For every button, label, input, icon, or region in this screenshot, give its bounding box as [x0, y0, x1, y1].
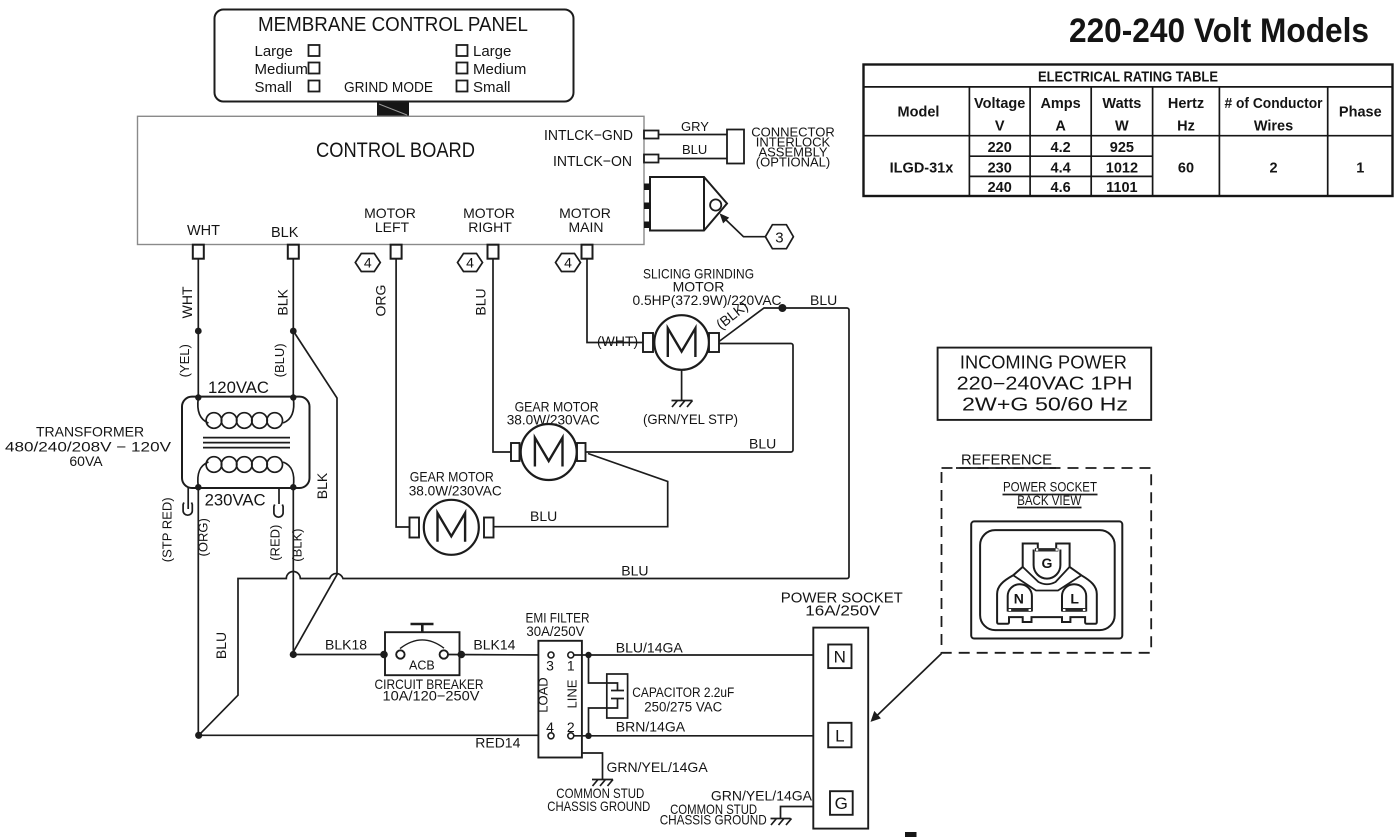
svg-text:(BLU): (BLU)	[272, 343, 287, 377]
svg-text:38.0W/230VAC: 38.0W/230VAC	[409, 483, 502, 499]
connector assembly body	[650, 177, 727, 231]
wire BLK18	[293, 654, 396, 656]
node transformer bottom-left	[195, 484, 201, 490]
svg-text:4: 4	[546, 719, 554, 735]
terminal M3 left	[410, 518, 420, 538]
svg-text:BLK: BLK	[271, 225, 299, 241]
svg-text:CAPACITOR 2.2uF: CAPACITOR 2.2uF	[632, 685, 734, 700]
node capacitor top	[585, 652, 591, 658]
svg-text:Wires: Wires	[1254, 119, 1293, 135]
svg-text:N: N	[1014, 591, 1024, 607]
svg-text:1: 1	[567, 658, 575, 674]
wire BLK down	[292, 259, 294, 398]
svg-text:Watts: Watts	[1102, 96, 1141, 112]
node BLU top junction	[778, 304, 786, 312]
breaker arc	[400, 640, 444, 649]
svg-text:BACK VIEW: BACK VIEW	[1017, 492, 1082, 508]
terminal M2 right	[577, 443, 586, 461]
svg-text:L: L	[1070, 591, 1079, 607]
reference arrow to socket	[874, 654, 942, 719]
checkbox large left	[309, 45, 320, 56]
connector pin 1 (black)	[644, 184, 651, 191]
svg-text:BLU: BLU	[810, 292, 837, 308]
wire GRY	[659, 134, 728, 136]
incoming power box	[938, 348, 1152, 420]
svg-text:BLU: BLU	[213, 632, 229, 659]
svg-text:Voltage: Voltage	[974, 96, 1025, 112]
crown inner chevron lower	[1013, 575, 1081, 590]
wire MOTOR MAIN to motor	[587, 259, 643, 343]
wire BLK14	[448, 654, 548, 657]
svg-text:L: L	[835, 727, 844, 746]
wire BLU interlock	[659, 158, 728, 160]
checkbox small left	[309, 81, 320, 92]
terminal INTLCK-GND	[644, 131, 659, 139]
svg-text:10A/120−250V: 10A/120−250V	[383, 688, 481, 704]
svg-text:Model: Model	[898, 105, 940, 121]
node transformer bottom-right	[290, 484, 296, 490]
terminal MOTOR MAIN	[582, 245, 593, 259]
wire BLU long horizontal with hops	[199, 572, 847, 736]
svg-text:Small: Small	[473, 79, 511, 96]
terminal BLK	[288, 245, 299, 259]
circuit breaker ACB box	[385, 632, 460, 675]
svg-text:GRIND MODE: GRIND MODE	[344, 79, 433, 96]
N pocket dark bar	[1008, 608, 1032, 612]
svg-text:Amps: Amps	[1040, 96, 1080, 112]
socket back view outer plate	[971, 521, 1122, 638]
breaker pole left	[396, 650, 404, 658]
connector assembly eye	[710, 199, 721, 210]
svg-text:Hz: Hz	[1177, 119, 1195, 135]
svg-text:BLK18: BLK18	[325, 637, 367, 653]
socket terminal G	[830, 791, 853, 815]
EMI pin 3	[548, 652, 554, 658]
breaker pole right	[440, 650, 448, 658]
svg-text:ACB: ACB	[409, 658, 435, 672]
leader arrow to hexagon 3	[724, 218, 766, 237]
node capacitor bottom	[585, 733, 591, 739]
node WHT junction	[195, 328, 202, 335]
svg-text:Hertz: Hertz	[1168, 96, 1204, 112]
svg-text:230: 230	[988, 161, 1012, 177]
terminal M1 right	[709, 333, 719, 352]
svg-text:Small: Small	[255, 79, 293, 96]
control board box	[138, 116, 645, 244]
terminal M3 right	[484, 518, 494, 538]
svg-text:INCOMING POWER: INCOMING POWER	[960, 353, 1127, 373]
svg-text:120VAC: 120VAC	[208, 378, 269, 397]
terminal MOTOR RIGHT	[488, 245, 499, 259]
membrane control panel box	[215, 10, 574, 102]
svg-text:925: 925	[1110, 140, 1134, 156]
svg-text:REFERENCE: REFERENCE	[961, 452, 1052, 469]
svg-text:230VAC: 230VAC	[205, 491, 266, 510]
ribbon cable connector (black)	[377, 103, 409, 117]
svg-text:LINE: LINE	[564, 679, 579, 708]
svg-text:1: 1	[1356, 161, 1364, 177]
G pocket	[1034, 550, 1061, 579]
terminal M1 left	[643, 333, 653, 352]
svg-text:CHASSIS GROUND: CHASSIS GROUND	[547, 798, 650, 814]
chassis ground M1	[672, 401, 693, 408]
checkbox large right	[457, 45, 468, 56]
hexagon 4 motor main	[556, 254, 581, 272]
black page mark	[905, 832, 917, 837]
svg-text:G: G	[1041, 555, 1052, 571]
svg-text:BLK14: BLK14	[473, 637, 515, 653]
terminal MOTOR LEFT	[391, 245, 402, 259]
EMI filter box	[538, 641, 582, 758]
svg-text:4.4: 4.4	[1051, 161, 1071, 177]
reference dashed box	[942, 468, 1152, 653]
svg-text:(GRN/YEL STP): (GRN/YEL STP)	[643, 411, 738, 427]
connector pin 2 (black)	[644, 203, 651, 210]
table data	[890, 140, 1365, 196]
wire M1 right to gear motor 1	[585, 344, 793, 453]
svg-text:BLU: BLU	[473, 288, 489, 315]
wire gear1 to gear2	[494, 454, 668, 527]
node breaker left	[380, 651, 388, 659]
N pocket	[1008, 584, 1032, 611]
svg-text:220-240 Volt Models: 220-240 Volt Models	[1069, 12, 1369, 50]
svg-text:A: A	[1055, 119, 1066, 135]
svg-text:BLK: BLK	[274, 289, 290, 316]
svg-text:N: N	[834, 648, 846, 667]
wire BLU/14GA	[574, 654, 814, 656]
svg-text:(BLK): (BLK)	[289, 528, 304, 561]
svg-text:(OPTIONAL): (OPTIONAL)	[756, 155, 830, 170]
terminal M2 left	[511, 443, 520, 461]
L pocket	[1062, 584, 1086, 611]
svg-text:Medium: Medium	[473, 61, 526, 78]
socket back view crown outline	[997, 544, 1097, 624]
breaker toggle	[411, 624, 434, 632]
svg-text:INTLCK−ON: INTLCK−ON	[553, 153, 632, 170]
svg-text:Large: Large	[473, 43, 511, 60]
svg-text:3: 3	[546, 658, 554, 674]
svg-text:CONTROL BOARD: CONTROL BOARD	[316, 139, 475, 162]
hexagon 3	[765, 225, 793, 249]
wire MOTOR LEFT to gear motor 2	[396, 259, 409, 527]
EMI pin 2	[568, 733, 574, 739]
svg-text:WHT: WHT	[187, 223, 220, 239]
svg-text:2: 2	[1269, 161, 1277, 177]
svg-text:BLU: BLU	[621, 563, 648, 579]
svg-text:4: 4	[466, 255, 474, 271]
terminal WHT	[193, 245, 204, 259]
wire EMI ground	[582, 753, 603, 780]
svg-text:GRN/YEL/14GA: GRN/YEL/14GA	[607, 759, 709, 775]
svg-text:(YEL): (YEL)	[177, 344, 192, 377]
socket back view inner plate	[980, 530, 1115, 630]
svg-text:0.5HP(372.9W)/220VAC: 0.5HP(372.9W)/220VAC	[633, 292, 782, 308]
svg-text:ILGD-31x: ILGD-31x	[890, 161, 954, 177]
wire BLK diagonal from junction	[293, 331, 337, 652]
wire RED14 to pin4 handled; wire BRN/14GA	[574, 735, 814, 737]
svg-text:240: 240	[988, 180, 1012, 196]
wire ORG transformer to bottom node	[197, 487, 199, 735]
svg-text:CHASSIS GROUND: CHASSIS GROUND	[660, 812, 767, 828]
svg-text:LOAD: LOAD	[536, 677, 551, 712]
node BLK18 junction	[290, 651, 297, 658]
svg-text:ELECTRICAL RATING TABLE: ELECTRICAL RATING TABLE	[1038, 69, 1218, 86]
svg-text:BLU: BLU	[749, 436, 776, 452]
svg-text:INTLCK−GND: INTLCK−GND	[544, 127, 633, 144]
wire M1 ground stem	[681, 370, 683, 401]
hexagon 4 motor left	[355, 254, 380, 272]
terminal INTLCK-ON	[644, 155, 659, 163]
node transformer top-left	[195, 394, 201, 400]
svg-text:4.6: 4.6	[1051, 180, 1071, 196]
svg-text:4: 4	[364, 255, 372, 271]
svg-text:Medium: Medium	[255, 61, 308, 78]
svg-text:60VA: 60VA	[69, 453, 103, 469]
svg-text:4.2: 4.2	[1051, 140, 1071, 156]
svg-text:TRANSFORMER: TRANSFORMER	[36, 424, 144, 440]
wire BLK transformer to breaker node	[292, 487, 294, 654]
transformer T1 box	[182, 397, 310, 488]
svg-text:MEMBRANE CONTROL PANEL: MEMBRANE CONTROL PANEL	[258, 14, 528, 36]
svg-text:BLU: BLU	[682, 142, 707, 157]
table grid lines	[864, 87, 1393, 196]
svg-text:60: 60	[1178, 161, 1194, 177]
svg-text:4: 4	[564, 255, 572, 271]
svg-text:220: 220	[988, 140, 1012, 156]
svg-text:RIGHT: RIGHT	[468, 219, 512, 235]
motor M1 slicing grinding	[654, 315, 709, 370]
svg-text:RED14: RED14	[475, 735, 520, 751]
node transformer top-right	[290, 394, 296, 400]
wire WHT down	[197, 259, 199, 398]
socket terminal L	[828, 723, 851, 748]
node bottom-left junction	[195, 732, 202, 739]
svg-text:ORG: ORG	[373, 285, 389, 317]
electrical rating table frame	[864, 65, 1393, 197]
svg-text:GRY: GRY	[681, 119, 709, 134]
svg-text:(WHT): (WHT)	[597, 333, 638, 349]
svg-text:LEFT: LEFT	[375, 219, 410, 235]
svg-text:1101: 1101	[1106, 180, 1137, 196]
svg-text:2W+G 50/60 Hz: 2W+G 50/60 Hz	[962, 395, 1128, 415]
chassis ground socket	[771, 819, 792, 826]
svg-text:BLK: BLK	[314, 472, 330, 499]
transformer core	[203, 437, 290, 439]
power socket body	[813, 628, 868, 829]
svg-text:1012: 1012	[1106, 161, 1138, 177]
crown inner chevron upper	[1023, 567, 1070, 584]
svg-text:BLU: BLU	[530, 508, 557, 524]
svg-text:Large: Large	[255, 43, 293, 60]
svg-text:BRN/14GA: BRN/14GA	[616, 719, 686, 735]
chassis ground EMI	[592, 780, 613, 787]
svg-text:30A/250V: 30A/250V	[526, 624, 584, 639]
transformer secondary coil	[198, 462, 209, 487]
wire M1 to BLU top	[719, 308, 849, 579]
svg-text:G: G	[835, 794, 848, 813]
svg-text:220−240VAC 1PH: 220−240VAC 1PH	[957, 374, 1133, 394]
capacitor C1 leads and box	[589, 655, 625, 736]
motor M3 gear motor 2	[424, 500, 479, 555]
table headers	[898, 96, 1382, 135]
wire RED14	[199, 734, 548, 736]
svg-text:3: 3	[775, 230, 783, 247]
svg-text:W: W	[1115, 119, 1129, 135]
node BLK junction	[290, 328, 297, 335]
connector interlock plug	[727, 130, 744, 164]
socket terminal N	[828, 645, 851, 669]
hexagon 4 motor right	[458, 254, 483, 272]
svg-text:BLU/14GA: BLU/14GA	[616, 640, 684, 656]
svg-text:250/275 VAC: 250/275 VAC	[644, 700, 722, 715]
svg-text:16A/250V: 16A/250V	[805, 603, 880, 620]
svg-text:2: 2	[567, 719, 575, 735]
connector pin 3 (black)	[644, 222, 651, 229]
stub pin left (STP RED)	[187, 488, 189, 509]
wire MOTOR RIGHT to gear motor 1	[493, 259, 511, 452]
svg-text:(RED): (RED)	[268, 525, 283, 561]
svg-text:MAIN: MAIN	[569, 219, 604, 235]
svg-text:# of Conductor: # of Conductor	[1225, 96, 1323, 112]
motor M2 gear motor 1	[521, 424, 577, 480]
stub pin right	[278, 488, 280, 504]
svg-text:WHT: WHT	[179, 286, 195, 318]
svg-text:V: V	[995, 119, 1005, 135]
checkbox medium left	[309, 63, 320, 74]
G pocket dark bar	[1035, 548, 1059, 551]
node breaker right	[458, 651, 466, 659]
L pocket dark bar	[1062, 608, 1086, 612]
checkbox medium right	[457, 63, 468, 74]
svg-text:(STP RED): (STP RED)	[160, 497, 175, 562]
EMI pin 1	[568, 652, 574, 658]
svg-text:Phase: Phase	[1339, 105, 1382, 121]
checkbox small right	[457, 81, 468, 92]
transformer primary coil	[198, 398, 209, 423]
wire G to chassis ground	[781, 807, 814, 819]
EMI pin 4	[548, 733, 554, 739]
